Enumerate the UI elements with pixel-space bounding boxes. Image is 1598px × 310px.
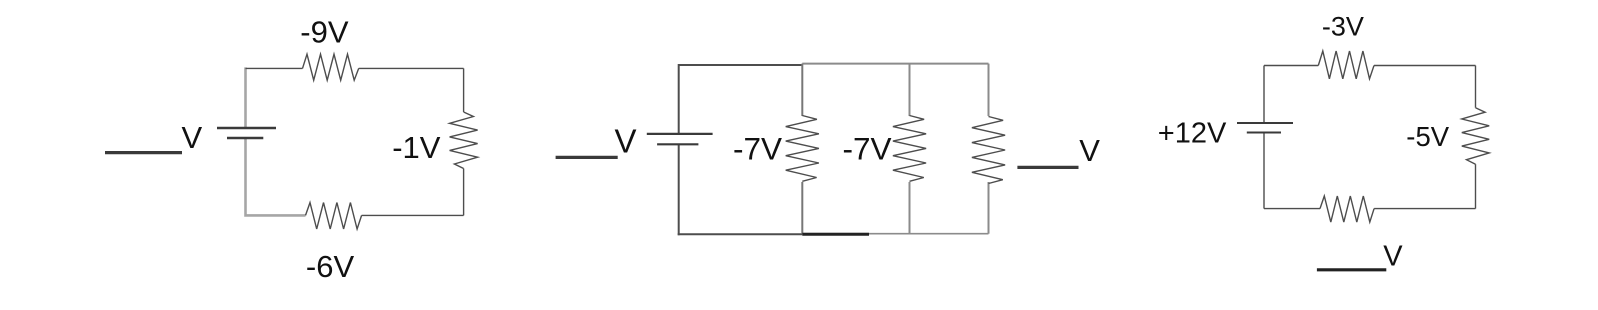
svg-text:-1V: -1V — [392, 130, 441, 165]
svg-text:-3V: -3V — [1322, 12, 1364, 42]
svg-text:-7V: -7V — [843, 130, 892, 166]
svg-text:-5V: -5V — [1406, 121, 1449, 152]
svg-text:-9V: -9V — [300, 14, 349, 49]
svg-text:-6V: -6V — [306, 249, 355, 284]
svg-text:-7V: -7V — [733, 130, 782, 166]
svg-text:V: V — [615, 122, 637, 159]
svg-text:V: V — [182, 120, 203, 155]
svg-text:V: V — [1383, 240, 1403, 272]
svg-text:+12V: +12V — [1158, 117, 1227, 149]
svg-text:V: V — [1079, 133, 1100, 168]
